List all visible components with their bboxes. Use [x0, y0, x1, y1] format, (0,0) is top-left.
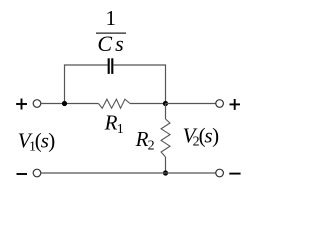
wire: right horizontal and vertical of capacitor branch	[113, 65, 165, 104]
terminal circle bottom-right	[216, 169, 224, 177]
wire: node B down to R2	[165, 104, 167, 120]
node B junction dot	[163, 101, 168, 106]
label V1(s)	[18, 128, 56, 154]
polarity + top-right	[230, 99, 241, 110]
svg-text:Cs: Cs	[97, 31, 126, 56]
svg-text:): )	[48, 128, 55, 152]
wire: bottom rail	[41, 172, 216, 174]
terminal circle bottom-left	[33, 169, 41, 177]
wire: R2 to node C	[165, 157, 167, 173]
node C junction dot	[163, 170, 168, 175]
svg-text:): )	[212, 123, 219, 147]
label R2	[135, 127, 155, 153]
svg-text:2: 2	[148, 138, 155, 153]
terminal circle top-right	[216, 100, 224, 108]
resistor R1	[98, 99, 130, 108]
label V2(s)	[183, 123, 220, 149]
wire: top-left terminal to node A	[41, 103, 98, 105]
label R1	[104, 111, 124, 137]
wire: node B to top-right terminal	[166, 103, 216, 105]
svg-text:1: 1	[117, 122, 124, 137]
svg-text:1: 1	[105, 6, 116, 30]
resistor R2	[161, 119, 170, 157]
polarity - bottom-right	[229, 173, 240, 175]
terminal circle top-left	[33, 100, 41, 108]
node A junction dot	[62, 101, 67, 106]
capacitor C	[109, 58, 113, 74]
svg-text:R: R	[104, 111, 118, 135]
svg-text:R: R	[135, 127, 149, 151]
polarity + top-left	[16, 99, 27, 110]
wire: left vertical of capacitor branch	[65, 65, 108, 104]
wire: R1 to node B	[130, 103, 166, 105]
polarity - bottom-left	[17, 173, 28, 175]
label 1/Cs (capacitor value)	[96, 6, 127, 56]
